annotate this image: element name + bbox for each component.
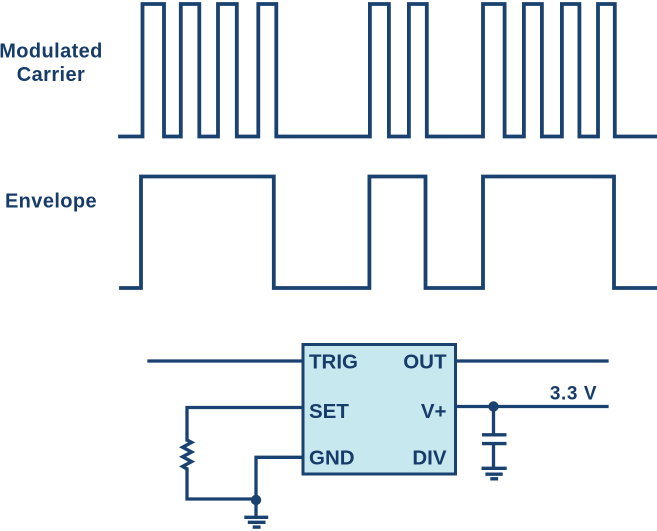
wire: junction to ground stub (254, 499, 257, 516)
wire: V+ supply (455, 405, 607, 408)
svg-text:OUT: OUT (403, 351, 447, 374)
resistor R (SET pull-down) (183, 440, 192, 469)
svg-text:SET: SET (309, 400, 349, 423)
ground (below left junction) (244, 517, 268, 527)
wire: TRIG input (149, 359, 303, 362)
waveform: envelope (121, 177, 656, 289)
ground (below capacitor) (482, 468, 507, 479)
wire: SET to resistor (187, 408, 303, 441)
junction node: V+ / capacitor (488, 401, 498, 411)
waveform: modulated carrier (120, 4, 656, 137)
capacitor C (V+ bypass) (482, 435, 507, 444)
svg-text:DIV: DIV (412, 447, 447, 470)
wire: V+ junction to capacitor (492, 407, 495, 434)
svg-text:Carrier: Carrier (17, 64, 85, 86)
IC U1 (timer block) (303, 345, 456, 475)
wire: resistor bottom to ground junction (187, 469, 256, 499)
svg-text:Envelope: Envelope (5, 191, 97, 213)
svg-text:3.3 V: 3.3 V (550, 384, 597, 405)
svg-text:TRIG: TRIG (309, 351, 358, 374)
wire: OUT output (455, 359, 607, 362)
wire: capacitor to ground (492, 445, 495, 467)
wire: GND pin down to junction (256, 457, 303, 499)
svg-text:GND: GND (309, 447, 355, 470)
svg-text:Modulated: Modulated (0, 41, 103, 63)
label: Modulated Carrier (0, 41, 103, 87)
junction node: ground (251, 495, 261, 505)
svg-text:V+: V+ (421, 400, 447, 423)
